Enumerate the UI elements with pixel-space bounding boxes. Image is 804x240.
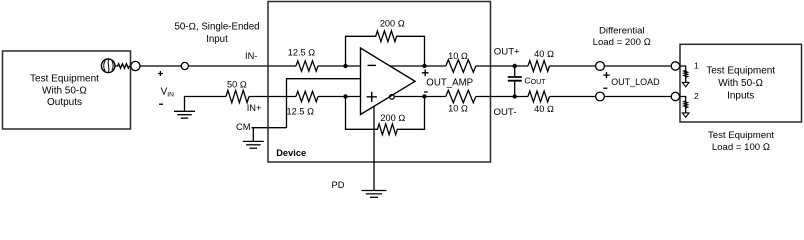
- pin 1 terminal: [671, 62, 679, 70]
- right box label: [706, 66, 775, 102]
- minus mark OUT_LOAD: [603, 87, 607, 89]
- junction dots at COUT: [513, 64, 517, 99]
- wire: 12.5 bottom to op-amp: [318, 96, 361, 98]
- wire: port to V_IN+ terminal: [140, 65, 181, 67]
- svg-text:50-Ω, Single-Ended: 50-Ω, Single-Ended: [175, 22, 260, 33]
- minus mark at V_IN: [159, 103, 163, 105]
- resistor 10 ohm (top): [446, 60, 476, 72]
- Device box: [268, 2, 491, 163]
- wire: CM to ground and riser into device: [252, 79, 361, 142]
- output wires from op-amp: [390, 65, 446, 67]
- svg-text:IN-: IN-: [245, 51, 257, 61]
- svg-text:Differential: Differential: [599, 26, 645, 37]
- label: 50-ohm single-ended input: [175, 22, 260, 45]
- svg-text:OUT+: OUT+: [494, 46, 520, 57]
- plus mark OUT_AMP: [422, 69, 429, 76]
- junction dots at op-amp inputs/outputs: [343, 64, 426, 99]
- port terminal on left box edge: [131, 61, 140, 70]
- svg-text:12.5 Ω: 12.5 Ω: [287, 106, 315, 116]
- terminal OUT_LOAD+: [596, 62, 605, 71]
- op-amp minus input mark: [368, 64, 376, 66]
- pin 1 ground arrow: [682, 82, 689, 86]
- pin 2 termination resistor: [680, 97, 688, 113]
- svg-text:IN+: IN+: [247, 103, 262, 113]
- resistor 50 ohm: [226, 90, 249, 102]
- op-amp U1 (fully differential): [361, 48, 416, 115]
- svg-text:OUT-: OUT-: [494, 107, 517, 118]
- resistor 10 ohm (bottom): [446, 90, 476, 102]
- svg-text:200 Ω: 200 Ω: [380, 19, 405, 29]
- svg-text:Test Equipment: Test Equipment: [708, 130, 774, 141]
- svg-text:OUT_LOAD: OUT_LOAD: [611, 77, 660, 87]
- svg-text:Load = 100 Ω: Load = 100 Ω: [712, 142, 770, 153]
- caption: test equipment load: [708, 130, 774, 153]
- svg-text:50 Ω: 50 Ω: [227, 79, 247, 89]
- svg-text:40 Ω: 40 Ω: [534, 49, 554, 59]
- node V_IN+ open terminal: [181, 62, 188, 69]
- feedback bottom: riser, 200-ohm, riser: [346, 97, 425, 135]
- source series resistor: [115, 64, 131, 69]
- svg-text:2: 2: [694, 91, 699, 101]
- plus mark OUT_LOAD: [603, 72, 609, 78]
- svg-text:OUT_AMP: OUT_AMP: [426, 77, 473, 88]
- svg-text:1: 1: [694, 61, 699, 71]
- resistor 40 ohm (top): [528, 61, 550, 72]
- inverting output bubble: [390, 95, 395, 100]
- op-amp plus input mark: [367, 92, 377, 102]
- wire: ground corner to 50-ohm resistor: [185, 97, 227, 112]
- svg-text:40 Ω: 40 Ω: [534, 104, 554, 114]
- svg-text:200 Ω: 200 Ω: [380, 113, 405, 123]
- minus mark OUT_AMP: [424, 91, 428, 93]
- AC source V1 (signal generator): [101, 59, 115, 73]
- resistor 12.5 ohm (bottom): [296, 91, 318, 101]
- wire: terminal to IN- resistor: [188, 65, 296, 67]
- svg-text:With 50-Ω: With 50-Ω: [718, 78, 763, 89]
- pin 2 ground arrow: [682, 113, 689, 117]
- right box: Test Equipment With 50-ohm Inputs: [680, 44, 802, 122]
- wires to right box: [604, 65, 671, 67]
- resistor 12.5 ohm (top): [296, 61, 318, 71]
- svg-text:CM: CM: [236, 122, 250, 132]
- svg-text:Test Equipment: Test Equipment: [30, 74, 99, 85]
- capacitor COUT: [514, 66, 516, 97]
- left box: Test Equipment With 50-ohm Outputs: [3, 51, 131, 129]
- svg-text:With 50-Ω: With 50-Ω: [42, 85, 87, 96]
- plus mark at V_IN: [158, 71, 163, 76]
- svg-text:Inputs: Inputs: [727, 90, 754, 101]
- ground G1: [174, 111, 195, 118]
- feedback top: riser, 200-ohm, riser: [346, 31, 425, 66]
- terminal OUT_LOAD-: [596, 92, 605, 101]
- svg-text:10 Ω: 10 Ω: [448, 51, 468, 61]
- svg-text:Input: Input: [206, 34, 228, 45]
- svg-text:Device: Device: [276, 148, 306, 158]
- pin 2 terminal: [671, 92, 679, 100]
- svg-text:Test Equipment: Test Equipment: [706, 66, 775, 77]
- svg-text:Load = 200 Ω: Load = 200 Ω: [593, 37, 651, 48]
- PD wire and ground: [373, 106, 375, 190]
- wire: 12.5 top to op-amp: [318, 65, 361, 67]
- label differential load: [593, 26, 651, 49]
- ground G2 (CM): [243, 141, 264, 148]
- svg-text:12.5 Ω: 12.5 Ω: [288, 48, 316, 58]
- svg-text:Outputs: Outputs: [47, 97, 82, 108]
- left box label: [30, 74, 99, 108]
- pin 1 termination resistor: [680, 66, 688, 82]
- svg-text:COUT: COUT: [524, 75, 546, 86]
- wire: 50-ohm resistor to IN+: [249, 96, 296, 98]
- svg-text:PD: PD: [332, 180, 345, 190]
- resistor 40 ohm (bottom): [528, 91, 550, 102]
- svg-text:10 Ω: 10 Ω: [448, 103, 468, 113]
